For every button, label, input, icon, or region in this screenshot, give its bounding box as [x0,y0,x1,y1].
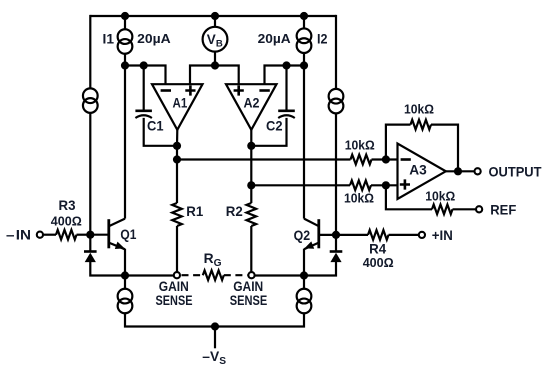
node wire I1 bottom to A1 inverting input [125,66,166,85]
wire I2 branch from top rail [303,16,305,29]
terminal -IN [37,232,43,238]
wire -IN to R3 [43,234,56,236]
terminal GAIN SENSE right [248,272,254,278]
wire -VS stub [214,327,216,349]
wire GAIN SENSE right to Q2 emitter node [255,274,304,276]
diode D1 [84,250,97,253]
node I2 bottom [300,61,308,69]
svg-text:20µA: 20µA [258,31,291,46]
terminal OUTPUT [475,168,481,174]
wire Q1 base node down to diode D1 [89,235,91,252]
wire R1 bottom to gain sense [176,226,178,272]
wire right rail lower (current source to Q2 base node) [335,113,337,235]
svg-text:OUTPUT: OUTPUT [489,164,542,180]
wire left rail lower (current source to Q1 base node) [89,112,91,234]
wire Q1 emitter down [124,249,126,276]
diode D2 [330,250,343,253]
wire top supply rail [90,15,336,17]
wire diode D2 anode to emitter bus [304,261,336,275]
resistor 10k (A2 to A3 plus) [350,181,371,191]
wire REF branch [386,185,432,209]
wire A3 output [446,170,475,172]
capacitor C1 [135,110,152,113]
node A2 output / C2 [247,142,255,150]
wire VB bottom to op-amp non-inverting inputs [214,52,216,66]
wire C1 bottom to A1 output node [144,118,177,146]
resistor 10k (A1 to A3 minus) [351,155,372,165]
current source (bottom left) [118,289,133,314]
svg-text:20µA: 20µA [137,31,171,46]
wire Q2 base node down to diode D2 [335,235,337,252]
wire A2 output node to A3 non-inverting input run [251,184,350,186]
wire A1 output node to A3 inverting input run [177,158,351,160]
resistor RG [203,270,224,280]
wire bottom left current source to -VS rail [125,313,215,327]
wire I2 node down to Q2 collector [303,66,305,219]
svg-text:REF: REF [490,202,516,218]
svg-text:SENSE: SENSE [156,292,193,308]
current source (left rail) [83,88,98,113]
svg-text:Q2: Q2 [294,228,311,243]
node VB bottom [211,61,219,69]
current source I1 [118,29,133,54]
svg-text:10kΩ: 10kΩ [404,102,434,117]
svg-text:10kΩ: 10kΩ [425,188,455,203]
wire A2 output down to R2 [250,130,252,204]
svg-text:C2: C2 [266,118,283,133]
resistor R1 [172,203,182,226]
node A1 to A3 run [173,155,181,163]
capacitor C2 [278,110,295,113]
op-amp A1 [152,84,203,130]
wire left rail upper (top rail corner down to current source) [89,15,91,89]
svg-text:10kΩ: 10kΩ [344,191,374,206]
terminal +IN [419,232,425,238]
node A1 output / C1 [173,142,181,150]
svg-text:400Ω: 400Ω [51,214,82,229]
wire diode D1 anode to emitter bus [90,261,125,275]
op-amp A2 [226,84,277,130]
node I1 bottom [121,61,129,69]
resistor 10k feedback [411,120,432,130]
terminal GAIN SENSE left [174,272,180,278]
wire A1 output down to R1 [176,130,179,204]
node Q1 emitter bus [121,271,129,279]
wire dashed to RG [182,274,203,276]
wire I1 branch: top rail through I1 [124,16,126,30]
voltage source VB [203,27,228,52]
svg-text:I2: I2 [317,31,328,46]
svg-text:+IN: +IN [432,228,453,243]
wire C1 top (node to plate) [143,66,145,110]
wire I1 node down to Q1 collector [124,66,126,219]
node C2 top [282,61,290,69]
wire R3 to Q1 base node [77,234,91,236]
wire Q1 emitter node to bottom current source [124,276,126,289]
resistor 10k REF [432,205,453,215]
node top rail VB [211,12,219,20]
wire Q2 emitter down [303,249,305,276]
node A3 non-inverting input [382,181,390,189]
transistor Q1 [107,219,110,248]
wire R2 bottom to gain sense [250,226,252,272]
node C1 top [140,61,148,69]
svg-text:A3: A3 [409,162,427,177]
svg-text:A2: A2 [244,95,260,110]
wire C2 bottom to A2 output node [251,118,286,146]
svg-text:– IN: – IN [6,227,31,242]
current source I2 [297,28,312,53]
resistor R3 [56,230,77,240]
resistor R4 [368,230,389,240]
svg-text:C1: C1 [147,118,164,133]
node A3 output [454,167,462,175]
svg-text:I1: I1 [103,31,115,46]
current source (bottom right) [297,289,312,314]
svg-text:R1: R1 [186,204,203,219]
node -VS rail [211,322,219,330]
node wire I2 bottom to A2 inverting input [265,66,305,85]
node A2 to A3 run [247,181,255,189]
node Q2 emitter bus [300,271,308,279]
wire C2 top (node to plate) [285,66,287,110]
svg-text:R3: R3 [59,198,76,213]
resistor R2 [247,203,257,226]
wire Q1 emitter node to GAIN SENSE terminal [125,274,174,276]
current source (right rail) [329,89,344,114]
wire VB branch from top rail [214,16,216,27]
wire bottom right current source to -VS rail [215,313,304,327]
svg-text:400Ω: 400Ω [363,255,394,270]
svg-text:R2: R2 [226,204,243,219]
wire Q2 emitter node to bottom current source [303,276,305,289]
node Q2 base / right rail [332,231,340,239]
terminal REF [476,206,482,212]
node A3 inverting input [382,155,390,163]
node top rail I2 [300,12,308,20]
wire R4 to +IN [389,234,419,236]
node top rail I1 [121,12,129,20]
wire A3 feedback loop [386,125,411,160]
svg-text:10kΩ: 10kΩ [345,138,375,153]
wire dashed from RG [224,274,248,276]
wire right rail upper [335,15,337,89]
op-amp A3 [398,144,446,200]
transistor Q2 [317,219,320,248]
svg-text:SENSE: SENSE [230,292,268,308]
svg-text:Q1: Q1 [120,227,136,242]
node Q1 base / left rail [86,231,94,239]
wire Q2 base node to R4 [336,234,368,236]
svg-text:A1: A1 [173,95,188,110]
